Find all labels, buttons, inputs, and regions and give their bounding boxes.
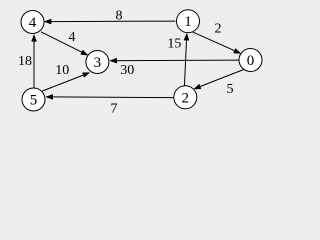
svg-text:30: 30 <box>120 63 134 78</box>
edge 2->1 weight 15 wire <box>167 33 189 86</box>
node 3 <box>86 51 109 74</box>
svg-text:4: 4 <box>69 30 76 45</box>
edge 2->5 weight 7 wire <box>46 95 173 117</box>
edge 4->3 weight 4 wire <box>41 30 88 55</box>
svg-text:0: 0 <box>247 53 255 69</box>
edge 0->2 weight 5 wire <box>194 69 246 97</box>
node 5 <box>22 88 45 111</box>
node 0 <box>239 49 262 72</box>
edge 5->3 weight 10 wire <box>42 63 89 91</box>
svg-text:4: 4 <box>29 15 37 31</box>
svg-text:1: 1 <box>184 14 192 30</box>
edge 5->4 weight 18 wire <box>18 35 37 88</box>
edge 1->0 weight 2 wire <box>193 22 241 54</box>
svg-text:18: 18 <box>18 54 32 69</box>
svg-text:3: 3 <box>94 55 102 71</box>
svg-text:2: 2 <box>182 90 190 106</box>
svg-text:7: 7 <box>111 102 118 117</box>
edge 1->4 weight 8 wire <box>44 9 175 24</box>
svg-text:5: 5 <box>227 82 234 97</box>
node 1 <box>177 10 200 33</box>
svg-text:5: 5 <box>30 93 38 109</box>
edge 0->3 weight 30 wire <box>110 58 239 78</box>
svg-text:10: 10 <box>55 63 69 78</box>
svg-text:8: 8 <box>116 9 123 24</box>
svg-text:15: 15 <box>167 36 181 51</box>
node 2 <box>174 86 197 109</box>
svg-text:2: 2 <box>215 22 222 37</box>
node 4 <box>21 11 44 34</box>
